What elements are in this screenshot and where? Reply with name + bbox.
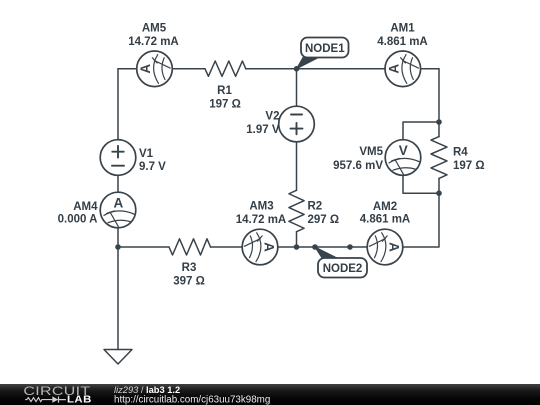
svg-text:R3: R3 — [182, 262, 197, 274]
wire right rail upper — [438, 69, 440, 137]
svg-text:14.72 mA: 14.72 mA — [128, 36, 179, 48]
svg-text:1.97 V: 1.97 V — [246, 124, 280, 136]
svg-text:A: A — [387, 242, 402, 252]
svg-text:14.72 mA: 14.72 mA — [236, 214, 287, 226]
wire VM5 branch bottom — [403, 175, 439, 193]
svg-text:R1: R1 — [217, 85, 232, 97]
wire node2 to AM3 — [278, 246, 297, 248]
wire top-left vertical — [117, 69, 119, 140]
svg-text:297 Ω: 297 Ω — [308, 214, 340, 226]
wire node1 to V2 — [296, 69, 298, 106]
wire AM4 to ground — [117, 228, 119, 350]
svg-text:R2: R2 — [308, 200, 323, 212]
ammeter AM2 — [367, 229, 403, 265]
wire right rail lower — [403, 178, 439, 247]
svg-text:A: A — [386, 64, 401, 74]
svg-text:0.000 A: 0.000 A — [58, 213, 98, 225]
svg-text:AM3: AM3 — [249, 200, 273, 212]
wire AM1 to right rail — [421, 68, 439, 70]
svg-text:NODE2: NODE2 — [323, 263, 363, 275]
wire R2 to bottom — [296, 232, 298, 247]
ammeter AM4 — [100, 192, 136, 228]
svg-text:AM2: AM2 — [373, 201, 397, 213]
resistor R3 — [169, 239, 211, 255]
wire AM2 to node2 — [297, 246, 367, 248]
svg-text:R4: R4 — [453, 147, 468, 159]
svg-text:AM4: AM4 — [73, 201, 98, 213]
voltage source V2 — [279, 106, 315, 142]
wire VM5 branch top — [403, 122, 439, 140]
ammeter AM3 — [242, 229, 278, 265]
svg-text:LAB: LAB — [67, 394, 92, 405]
node NODE2 junction pointer — [315, 247, 337, 258]
ammeter AM1 — [385, 51, 421, 87]
resistor R1 — [205, 61, 246, 76]
footer bar — [0, 384, 540, 405]
svg-text:V2: V2 — [265, 111, 279, 123]
wire V1 to AM4 — [117, 175, 119, 192]
svg-text:4.861 mA: 4.861 mA — [377, 36, 428, 48]
node junction AM2 left — [347, 244, 353, 250]
resistor R2 — [289, 190, 304, 231]
svg-text:NODE1: NODE1 — [305, 43, 345, 55]
svg-text:4.861 mA: 4.861 mA — [360, 214, 411, 226]
svg-text:197 Ω: 197 Ω — [453, 160, 485, 172]
svg-text:A: A — [138, 64, 153, 74]
voltmeter VM5 — [385, 140, 421, 176]
svg-text:http://circuitlab.com/cj63uu73: http://circuitlab.com/cj63uu73k98mg — [114, 394, 270, 405]
wire V2 to R2 — [296, 142, 298, 191]
svg-text:197 Ω: 197 Ω — [209, 99, 241, 111]
logo resistor zigzag — [25, 398, 52, 402]
node junction R2 bottom — [294, 244, 300, 250]
svg-text:AM5: AM5 — [142, 23, 167, 35]
logo diode arrow — [52, 396, 58, 402]
svg-text:A: A — [262, 242, 277, 252]
resistor R4 — [431, 137, 447, 179]
svg-text:VM5: VM5 — [359, 146, 383, 158]
node junction bottom-left — [115, 244, 121, 250]
node junction right lower — [436, 190, 442, 196]
node junction NODE2 attach — [312, 244, 318, 250]
svg-text:V1: V1 — [139, 148, 154, 160]
node junction right upper — [436, 119, 442, 125]
ground — [104, 350, 132, 365]
voltage source V1 — [100, 140, 136, 176]
wire R1 to node1 — [246, 68, 297, 70]
svg-text:397 Ω: 397 Ω — [173, 275, 205, 287]
node NODE2 callout box — [318, 258, 367, 278]
node NODE1 callout box — [301, 38, 349, 58]
wire top-left horizontal — [118, 68, 137, 70]
wire AM3 to R3 — [211, 246, 243, 248]
wire AM5 to R1 — [172, 68, 205, 70]
node NODE1 callout pointer — [297, 58, 319, 69]
wire R3 to left rail — [118, 246, 169, 248]
ammeter AM5 — [137, 51, 173, 87]
node NODE1 junction dot — [294, 66, 300, 72]
svg-text:AM1: AM1 — [390, 23, 415, 35]
svg-text:V: V — [399, 143, 408, 158]
svg-text:957.6 mV: 957.6 mV — [333, 160, 383, 172]
wire node1 to AM1 — [297, 68, 386, 70]
svg-text:A: A — [113, 196, 123, 211]
svg-text:9.7 V: 9.7 V — [139, 161, 166, 173]
